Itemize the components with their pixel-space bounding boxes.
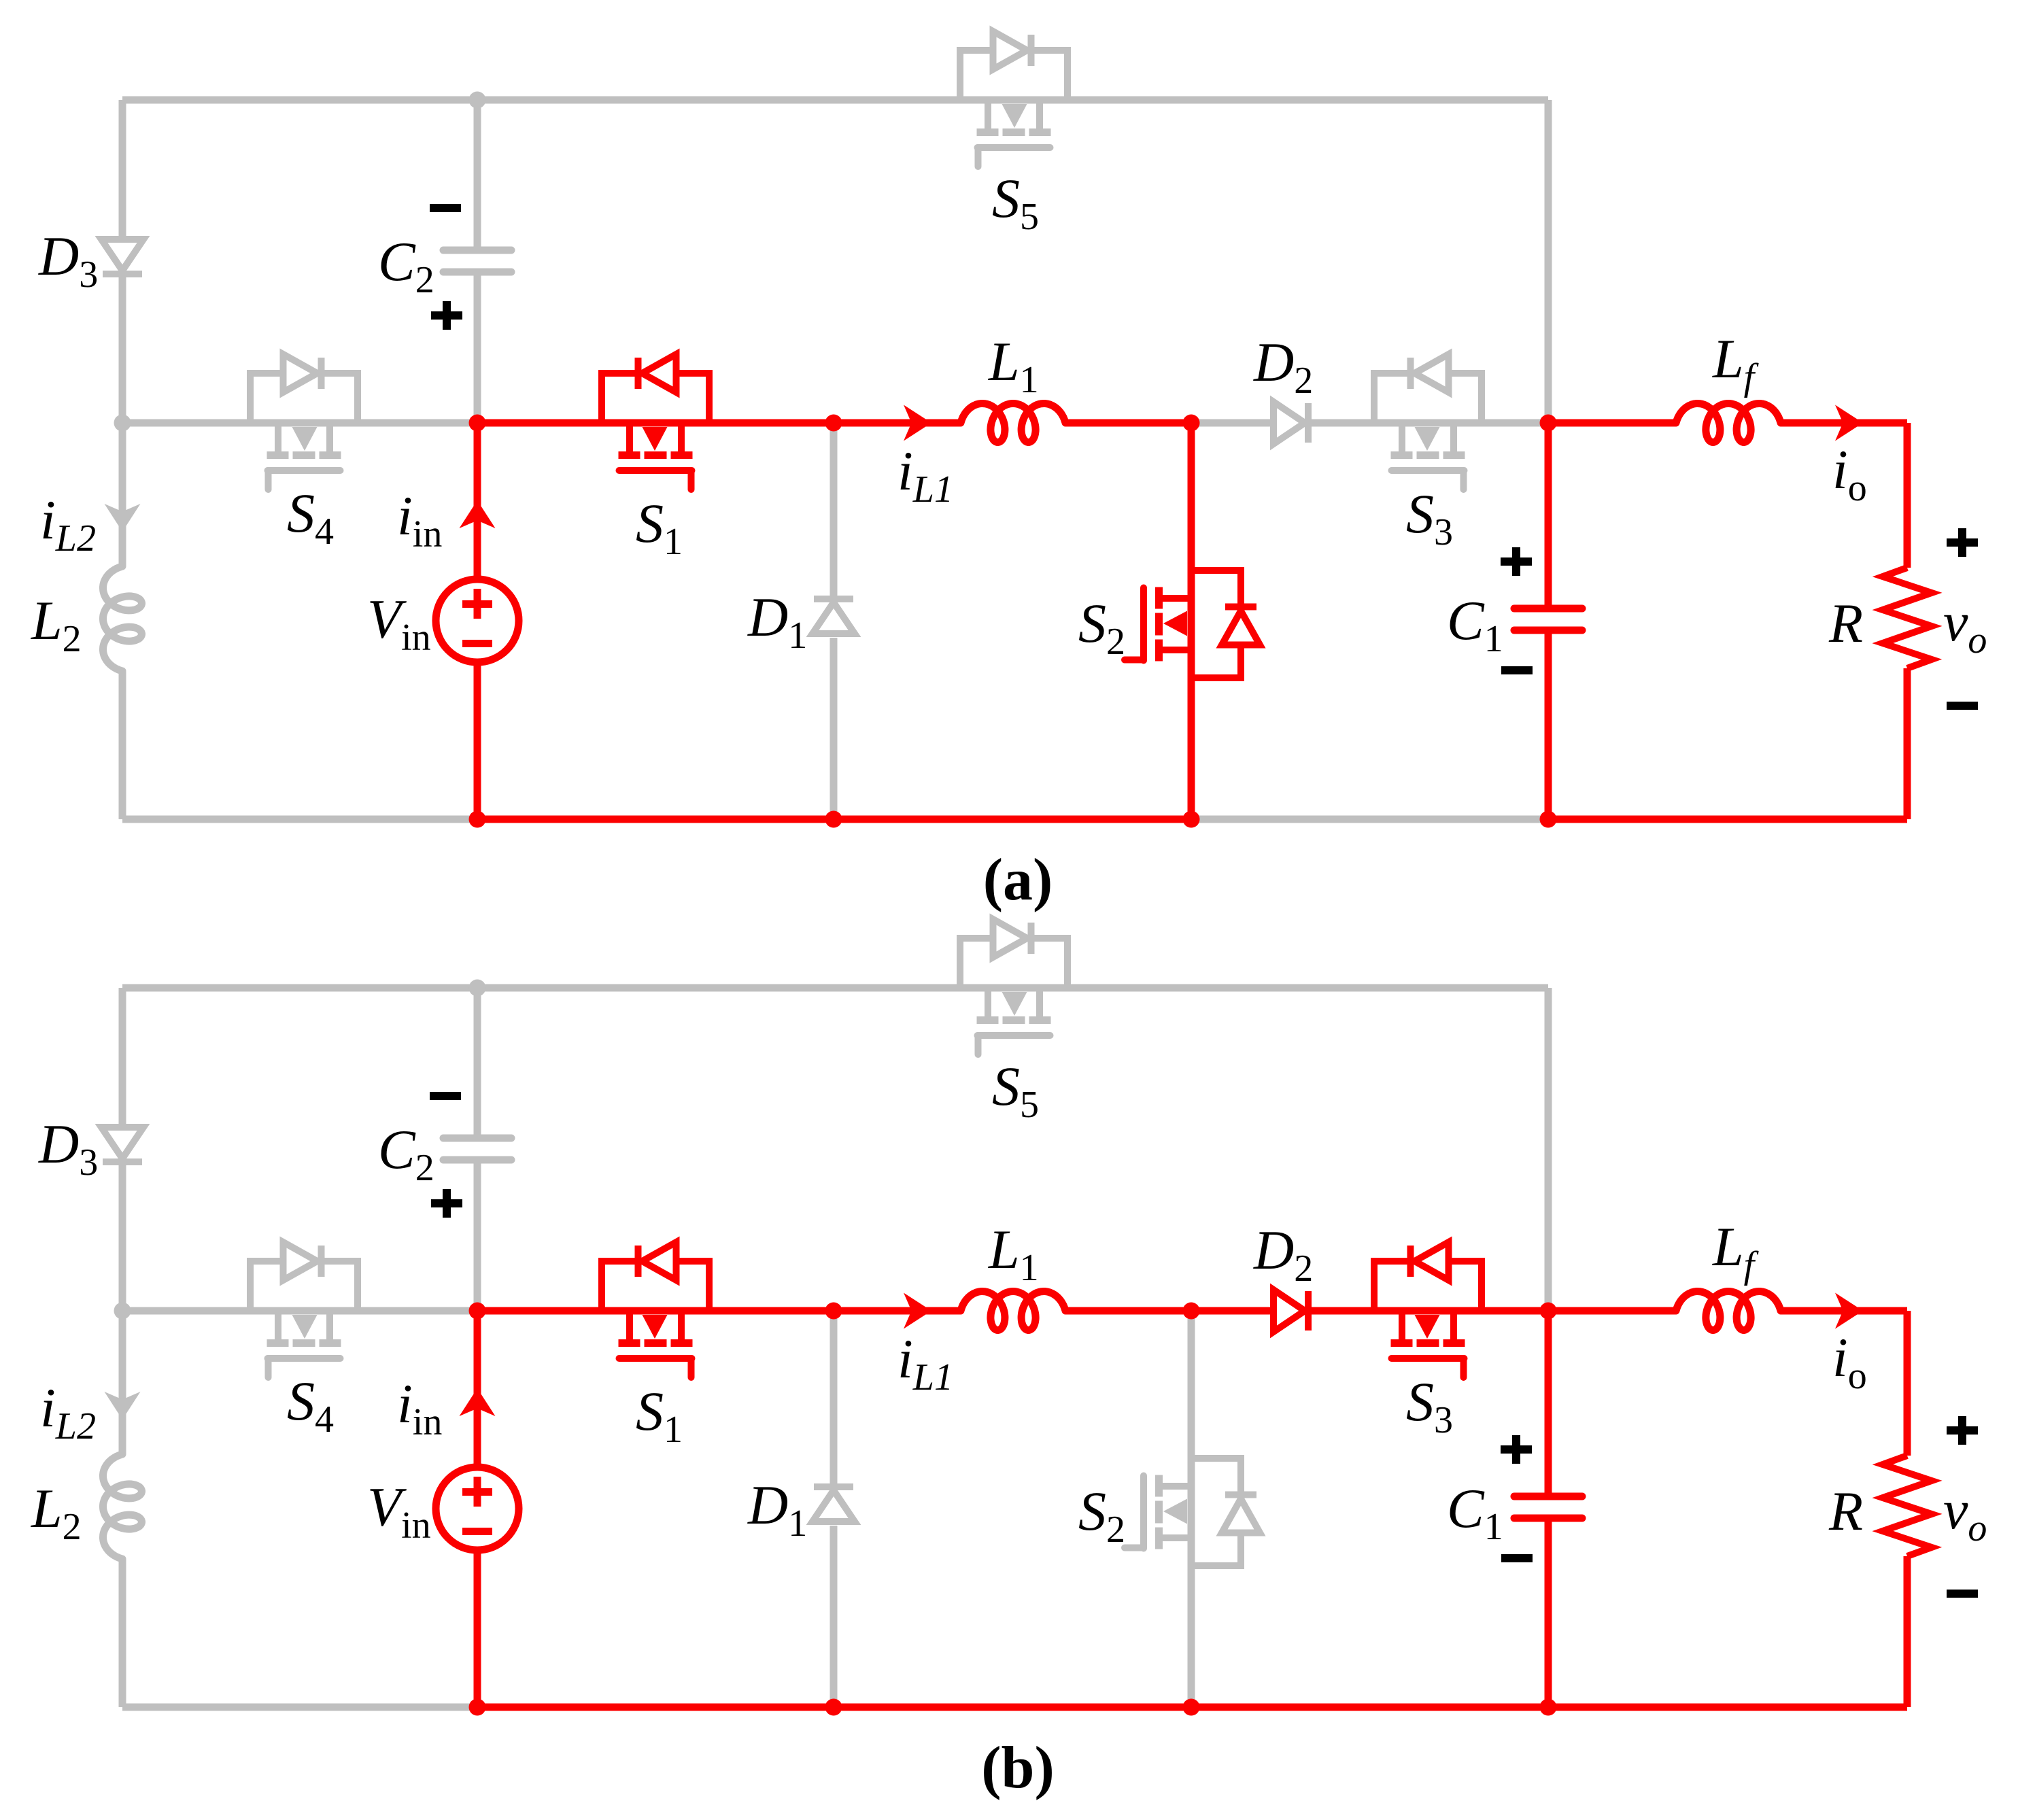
inductor L2	[103, 566, 142, 671]
svg-text:Lf: Lf	[1712, 1216, 1760, 1286]
svg-text:D2: D2	[1253, 1219, 1313, 1290]
source Vin	[436, 579, 519, 662]
svg-text:iL2: iL2	[40, 489, 96, 560]
svg-text:vo: vo	[1943, 1479, 1987, 1549]
svg-text:Lf: Lf	[1712, 328, 1760, 398]
svg-text:iL1: iL1	[897, 440, 953, 511]
inductor L2	[103, 1454, 142, 1559]
svg-text:Vin: Vin	[367, 1476, 431, 1547]
label C2 minus	[430, 1092, 461, 1100]
node D1 mid	[825, 1303, 842, 1320]
capacitor C2	[443, 1138, 511, 1160]
node Vin mid	[469, 415, 486, 432]
node D1 mid	[825, 415, 842, 432]
wire mid rail left (S4 segment)	[122, 419, 477, 427]
node Vin bottom	[469, 811, 486, 828]
arrow iL2 current	[105, 1392, 141, 1420]
svg-text:D1: D1	[747, 586, 807, 657]
wire Vin column	[474, 423, 481, 819]
wire S2 column	[1188, 1311, 1195, 1707]
svg-text:iL2: iL2	[40, 1377, 96, 1447]
inductor L1	[961, 1292, 1065, 1330]
mosfet S1	[602, 354, 709, 490]
svg-text:iin: iin	[397, 1373, 442, 1443]
label vo plus	[1947, 528, 1978, 557]
wire bottom rail Vin-C1	[477, 1704, 1548, 1711]
arrow iL2 current	[105, 504, 141, 532]
wire bottom rail far left	[122, 1704, 477, 1711]
wire left column (D3/L2 branch)	[119, 100, 126, 819]
label C1 minus	[1501, 666, 1533, 674]
label C2 plus	[431, 301, 462, 330]
svg-text:C1: C1	[1447, 1477, 1503, 1548]
node C1 mid	[1540, 1303, 1557, 1320]
node left mid	[114, 1303, 131, 1320]
mosfet S5	[960, 919, 1067, 1054]
svg-text:S5: S5	[992, 167, 1039, 238]
wire top rail	[122, 97, 1548, 104]
svg-text:S1: S1	[636, 1380, 683, 1451]
svg-text:R: R	[1828, 592, 1863, 654]
node left mid	[114, 415, 131, 432]
node C1 bottom	[1540, 811, 1557, 828]
svg-text:C2: C2	[378, 1118, 434, 1189]
wire left column (D3/L2 branch)	[119, 988, 126, 1707]
arrow io current	[1835, 1293, 1863, 1329]
mosfet S4	[250, 354, 358, 490]
figure (b) circuit	[31, 919, 1987, 1801]
wire mid rail D2-S3	[1191, 419, 1548, 427]
node Vin bottom	[469, 1699, 486, 1716]
mosfet S3	[1374, 354, 1482, 490]
wire S2 column	[1188, 423, 1195, 819]
mosfet S1	[602, 1242, 709, 1377]
svg-text:L1: L1	[988, 330, 1039, 401]
arrow iL1 current	[904, 1293, 931, 1329]
diode D2	[1273, 1290, 1308, 1332]
arrow iL1 current	[904, 405, 931, 441]
label vo minus	[1947, 1590, 1978, 1598]
svg-text:(b): (b)	[981, 1735, 1055, 1801]
svg-text:D3: D3	[38, 225, 98, 296]
wire C1 column	[1545, 423, 1552, 819]
wire C1 column	[1545, 1311, 1552, 1707]
wire mid rail S1-L1	[477, 419, 1191, 427]
svg-text:S2: S2	[1078, 1480, 1125, 1551]
label C1 plus	[1501, 1435, 1532, 1464]
wire top rail	[122, 984, 1548, 992]
wire D1 column	[830, 1311, 838, 1707]
wire C2 column	[474, 100, 481, 423]
svg-text:C2: C2	[378, 230, 434, 301]
mosfet S2	[1125, 570, 1260, 678]
svg-text:io: io	[1832, 1326, 1867, 1397]
diode D3	[101, 1127, 143, 1162]
label vo plus	[1947, 1416, 1978, 1445]
node D1 bottom	[825, 1699, 842, 1716]
arrow iin current	[460, 500, 496, 528]
source Vin	[436, 1467, 519, 1550]
wire right drop to C1 node	[1545, 988, 1552, 1311]
mosfet S3	[1374, 1242, 1482, 1377]
diode D2	[1273, 402, 1308, 444]
arrow iin current	[460, 1388, 496, 1416]
node top C2	[469, 92, 486, 109]
node S2 mid	[1183, 1303, 1200, 1320]
svg-text:S3: S3	[1406, 483, 1453, 553]
wire mid rail left (S4 segment)	[122, 1307, 477, 1315]
svg-text:(a): (a)	[983, 847, 1053, 913]
capacitor C2	[443, 250, 511, 272]
svg-text:S4: S4	[287, 482, 334, 553]
mosfet S2	[1125, 1458, 1260, 1566]
resistor R	[1883, 568, 1932, 668]
svg-text:C1: C1	[1447, 589, 1503, 660]
label C1 minus	[1501, 1554, 1533, 1562]
diode D1	[813, 1487, 855, 1522]
svg-text:io: io	[1832, 439, 1867, 509]
node S2 mid	[1183, 415, 1200, 432]
diode D3	[101, 239, 143, 274]
node C1 bottom	[1540, 1699, 1557, 1716]
wire output loop	[1548, 1311, 1907, 1707]
svg-text:S4: S4	[287, 1370, 334, 1441]
label vo minus	[1947, 702, 1978, 710]
svg-text:S3: S3	[1406, 1371, 1453, 1441]
label C2 minus	[430, 204, 461, 212]
node D1 bottom	[825, 811, 842, 828]
wire bottom rail right	[1548, 1704, 1907, 1711]
arrow io current	[1835, 405, 1863, 441]
figure (a) circuit	[31, 31, 1987, 913]
svg-text:S1: S1	[636, 492, 683, 563]
node S2 bottom	[1183, 1699, 1200, 1716]
svg-text:L1: L1	[988, 1218, 1039, 1289]
svg-text:Vin: Vin	[367, 588, 431, 659]
capacitor C1	[1514, 608, 1582, 630]
inductor Lf	[1676, 1292, 1781, 1330]
svg-text:L2: L2	[31, 589, 82, 660]
node S2 bottom	[1183, 811, 1200, 828]
wire bottom rail far left	[122, 816, 477, 823]
wire right drop to C1 node	[1545, 100, 1552, 423]
wire C2 column	[474, 988, 481, 1311]
svg-text:iL1: iL1	[897, 1328, 953, 1398]
svg-text:vo: vo	[1943, 591, 1987, 662]
wire bottom rail S2-C1	[1191, 816, 1548, 823]
resistor R	[1883, 1456, 1932, 1556]
wire bottom rail right	[1548, 816, 1907, 823]
svg-text:L2: L2	[31, 1477, 82, 1548]
svg-text:D2: D2	[1253, 331, 1313, 402]
svg-text:R: R	[1828, 1480, 1863, 1542]
wire Vin column	[474, 1311, 481, 1707]
mosfet S4	[250, 1242, 358, 1377]
inductor Lf	[1676, 404, 1781, 443]
mosfet S5	[960, 31, 1067, 167]
svg-text:D3: D3	[38, 1113, 98, 1184]
node top C2	[469, 980, 486, 997]
inductor L1	[961, 404, 1065, 443]
node C1 mid	[1540, 415, 1557, 432]
node Vin mid	[469, 1303, 486, 1320]
svg-text:S2: S2	[1078, 592, 1125, 663]
capacitor C1	[1514, 1496, 1582, 1518]
label C1 plus	[1501, 547, 1532, 576]
wire mid rail S1-L1	[477, 1307, 1191, 1315]
wire mid rail D2-S3	[1191, 1307, 1548, 1315]
diode D1	[813, 599, 855, 634]
wire output loop	[1548, 423, 1907, 819]
svg-text:D1: D1	[747, 1474, 807, 1545]
wire D1 column	[830, 423, 838, 819]
svg-text:iin: iin	[397, 485, 442, 555]
label C2 plus	[431, 1189, 462, 1218]
wire bottom rail Vin-S2	[477, 816, 1191, 823]
svg-text:S5: S5	[992, 1055, 1039, 1126]
